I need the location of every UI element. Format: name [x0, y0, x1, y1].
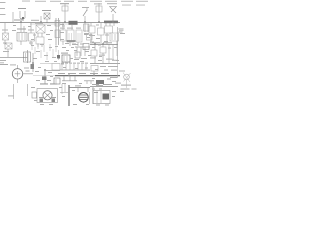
relay K1: [41, 10, 51, 23]
fuse F2: [94, 3, 102, 22]
control unit U1: [60, 23, 82, 46]
resistor R1: [17, 23, 27, 45]
node label bottom right: [115, 83, 121, 84]
resistor R4: [96, 80, 104, 86]
relay K4: [98, 23, 105, 44]
junction dots: [20, 21, 114, 76]
motor M2 washer pump: [32, 83, 58, 102]
switch bank S5: [60, 63, 90, 70]
wire main bus: [0, 23, 120, 25]
connector X1: [55, 18, 64, 45]
wire branch right: [119, 29, 124, 33]
control unit U2: [105, 23, 119, 45]
wire main lower bus: [33, 73, 120, 76]
wire stub labels upper: [12, 25, 125, 46]
motor M3 wiper: [75, 85, 90, 104]
wire stub labels lower: [35, 66, 118, 84]
switch bank S4: [72, 44, 90, 61]
relay K6: [99, 45, 106, 63]
wire bus mid right: [90, 42, 118, 44]
connector X2: [31, 53, 35, 72]
resistor R2: [24, 52, 31, 62]
wire lower branch: [62, 76, 94, 84]
wire right riser: [110, 27, 118, 78]
node label bus: [14, 20, 118, 24]
connector X3 right: [119, 71, 137, 90]
relay K2: [35, 23, 45, 47]
ground G1: [60, 84, 68, 94]
switch S3: [84, 23, 93, 40]
wire bottom left risers: [8, 84, 28, 99]
wire left feed: [0, 50, 28, 63]
node label gauge: [0, 64, 16, 65]
wire top d4: [90, 64, 120, 76]
gauge P1: [12, 65, 33, 83]
resistor R3: [54, 78, 60, 84]
transistor Q1: [107, 3, 117, 22]
fuse F1: [60, 3, 69, 22]
junction block label: [69, 21, 78, 25]
wire heavy drop: [69, 85, 90, 106]
terminal strip marks: [31, 43, 59, 62]
motor M1 small: [57, 53, 70, 62]
wire stub labels bottom: [31, 87, 124, 106]
wire drops mid right: [106, 45, 118, 63]
switch S2: [82, 7, 89, 23]
wire stub labels middle: [61, 47, 119, 65]
lamp E3: [3, 43, 12, 57]
relay K5: [90, 45, 97, 63]
wire bottom bus right: [90, 84, 118, 87]
lamp E2: [28, 23, 35, 45]
node label row top: [22, 1, 148, 6]
switch S1: [13, 8, 26, 22]
relay K3: [89, 23, 95, 44]
node labels left margin: [0, 2, 6, 15]
fuse box F3: [93, 87, 110, 104]
relay K7: [40, 64, 60, 85]
lamp E1: [2, 23, 9, 45]
